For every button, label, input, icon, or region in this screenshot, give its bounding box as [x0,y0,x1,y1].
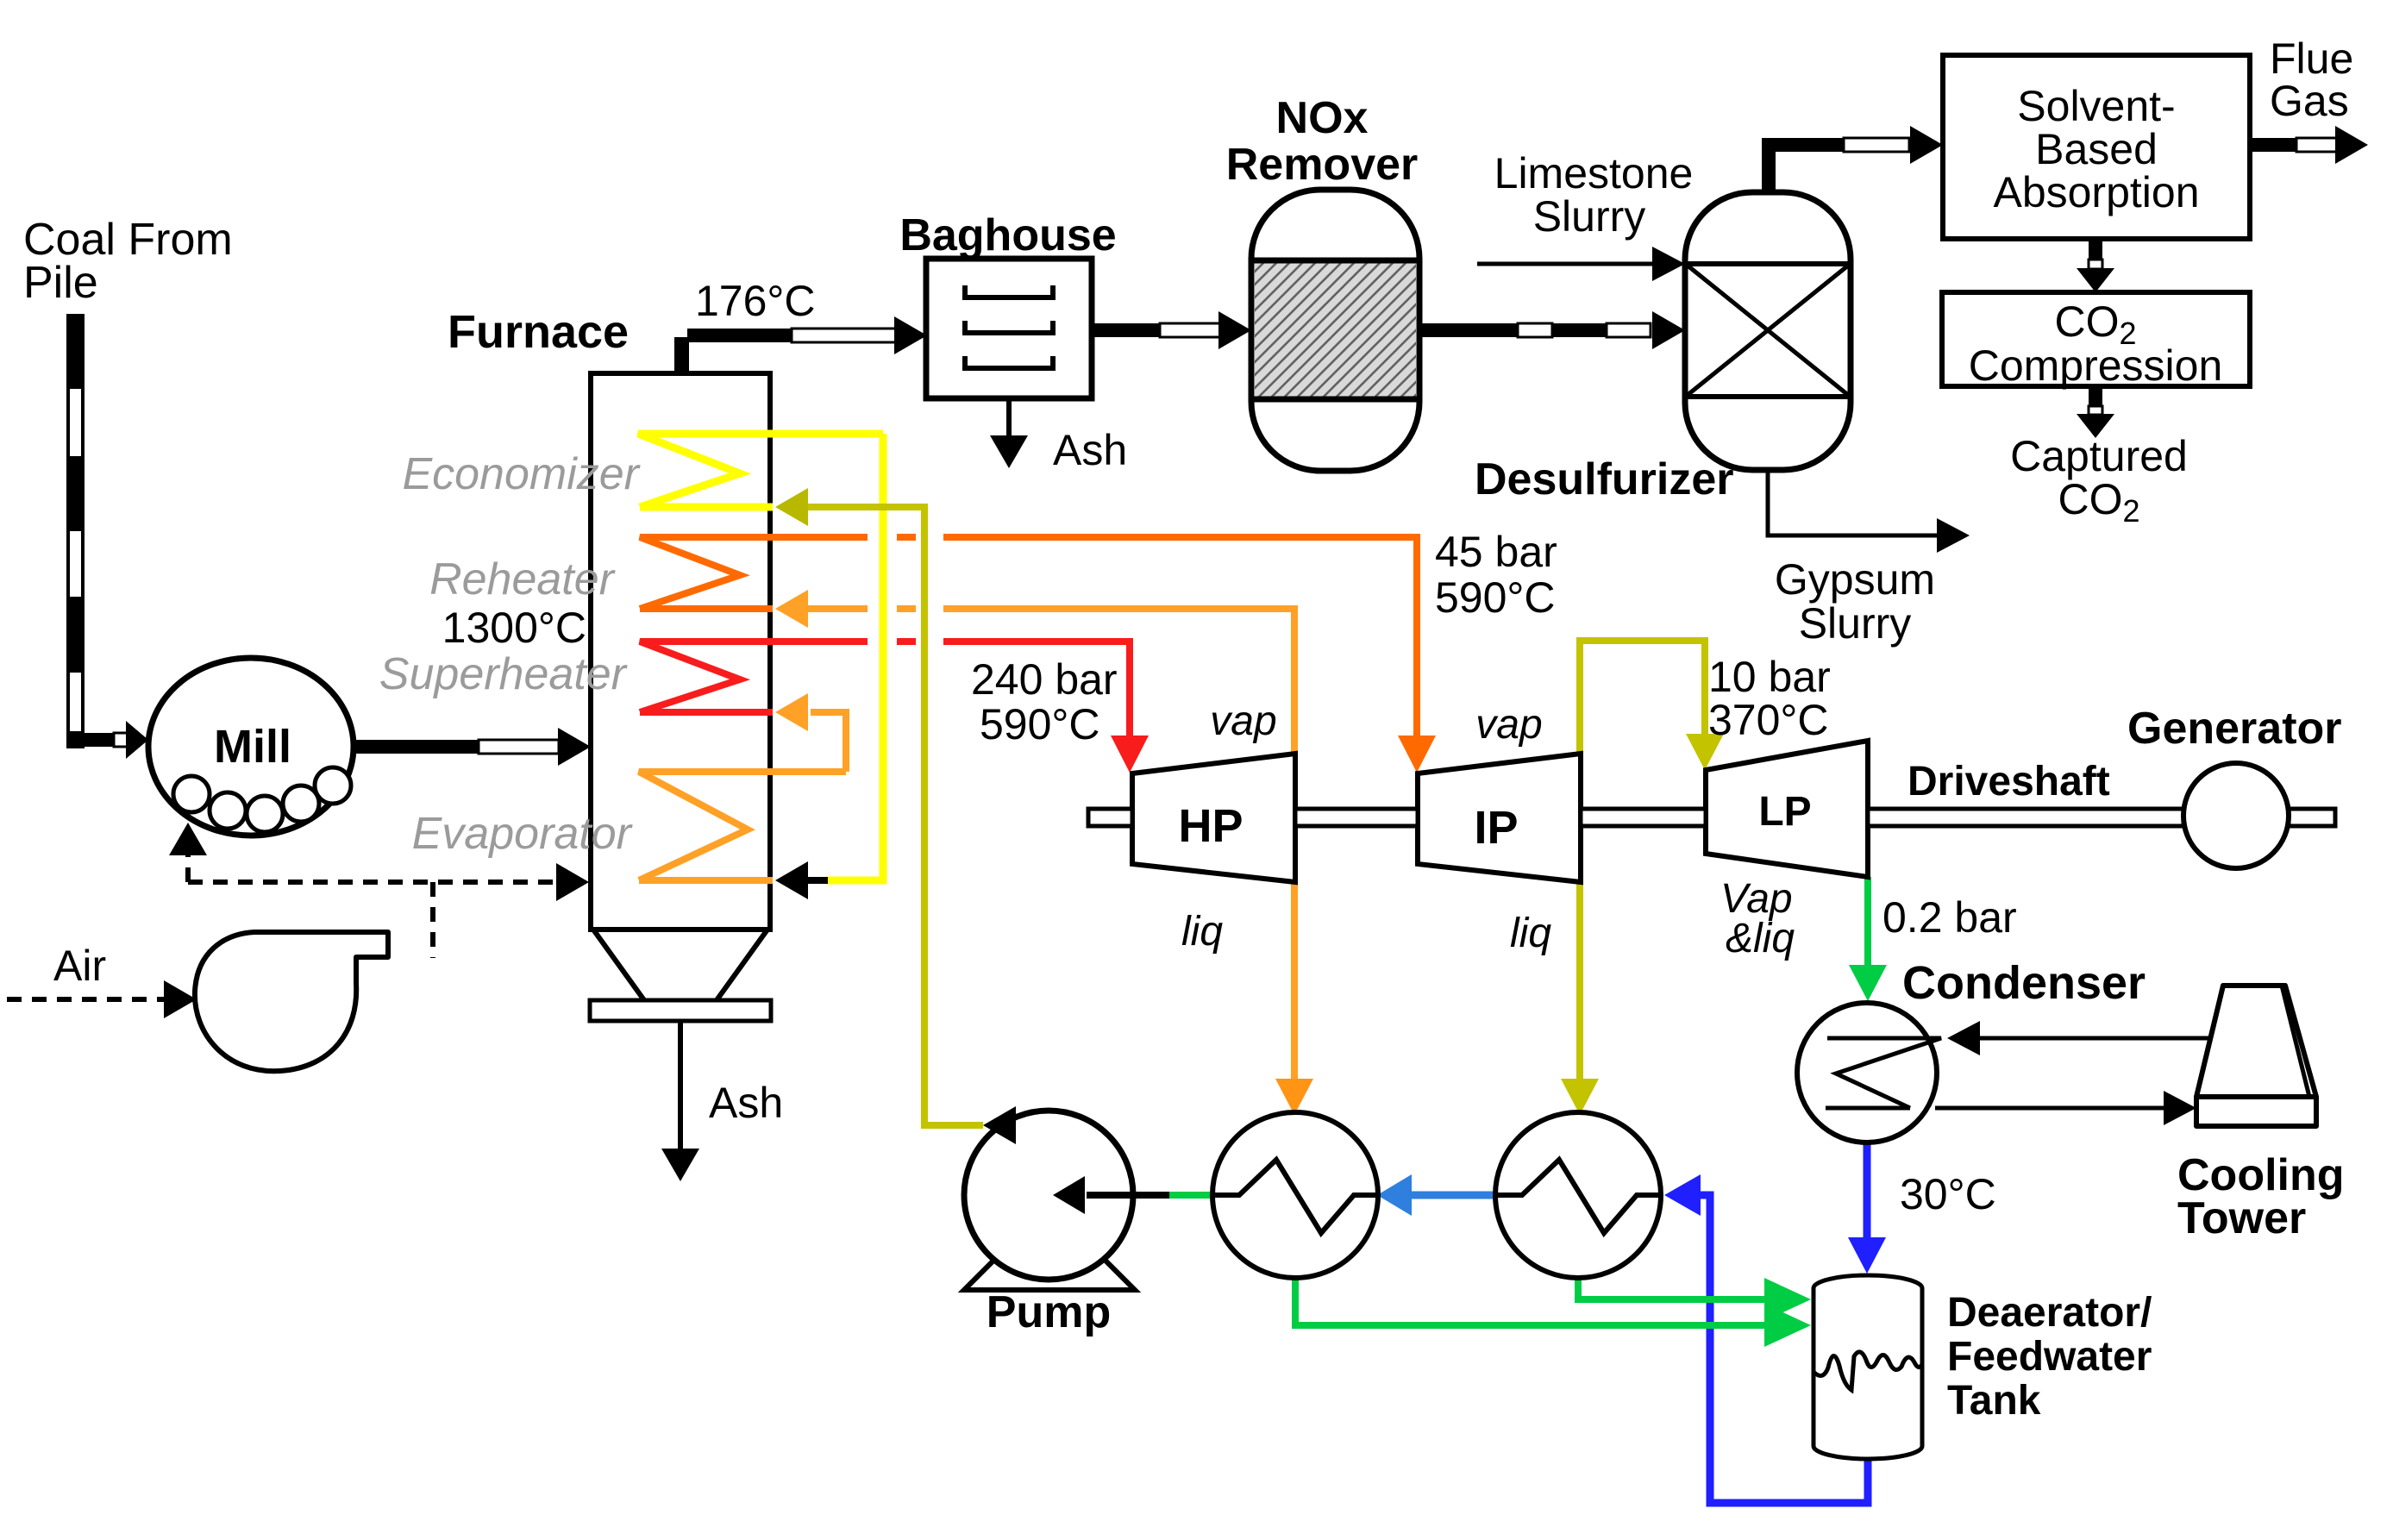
arrow absorber to CO2 compression [2077,239,2114,292]
feedwater green heater2 to deaerator [1578,1277,1764,1299]
feedwater line pump to economizer olive [808,507,983,1125]
IP turbine [1418,754,1581,882]
evaporator feed black arrow [806,877,828,884]
arrow compression to captured CO2 [2077,386,2114,438]
condensate blue deaerator to heater2 [1701,1195,1868,1503]
economizer coil yellow [638,434,883,507]
svg-text:Furnace: Furnace [448,306,629,358]
svg-text:Ash: Ash [1053,426,1127,474]
svg-text:Pile: Pile [23,258,98,308]
LP exhaust to condenser green [1864,877,1871,969]
LP turbine [1706,741,1868,877]
svg-text:Captured: Captured [2010,432,2188,480]
driveshaft [1088,809,2335,826]
svg-text:1300°C: 1300°C [442,604,586,652]
svg-text:Tank: Tank [1947,1378,2041,1424]
svg-text:0.2 bar: 0.2 bar [1882,893,2017,942]
baghouse [926,259,1092,398]
desulfurizer vessel [1685,192,1851,470]
condenser [1797,1003,1937,1142]
CO2 compression box [1942,292,2250,386]
svg-text:370°C: 370°C [1708,696,1829,744]
furnace hopper flange [590,1000,771,1021]
svg-text:Generator: Generator [2127,704,2342,754]
svg-text:Driveshaft: Driveshaft [1908,759,2110,804]
svg-text:Slurry: Slurry [1533,192,1646,241]
svg-text:176°C: 176°C [695,277,816,325]
air fan [195,932,388,1071]
svg-text:liq: liq [1181,909,1223,955]
furnace ash arrow [678,1021,683,1150]
flue gas outlet arrow [2250,126,2368,164]
svg-text:Economizer: Economizer [402,449,641,499]
svg-text:Baghouse: Baghouse [899,210,1116,260]
superheater coil red [640,642,773,712]
cooling tower [2196,986,2316,1126]
dashed air line to furnace [188,880,558,885]
HP turbine [1132,754,1295,882]
svg-text:45 bar: 45 bar [1435,528,1557,576]
NOx remover vessel [1251,190,1419,471]
svg-text:HP: HP [1178,800,1243,852]
svg-text:Tower: Tower [2177,1193,2306,1243]
svg-text:LP: LP [1758,789,1811,835]
svg-text:Superheater: Superheater [379,649,629,699]
svg-text:Gypsum: Gypsum [1775,555,1935,604]
svg-text:590°C: 590°C [980,700,1100,748]
condensate medium blue heater2 to heater1 [1412,1192,1495,1199]
svg-text:Reheater: Reheater [429,554,617,604]
svg-text:Slurry: Slurry [1799,599,1912,648]
svg-text:vap: vap [1475,702,1542,748]
svg-text:Ash: Ash [709,1079,783,1127]
coal conveyor from pile [66,316,85,748]
svg-text:Solvent-: Solvent- [2017,82,2175,130]
pump [964,1111,1133,1280]
svg-text:vap: vap [1210,698,1276,744]
economizer downcomer to evaporator yellow [826,434,883,880]
mill balls [173,767,351,832]
svg-text:NOx: NOx [1276,93,1369,143]
evaporator coil light orange [639,772,846,880]
feedwater heater2 [1495,1112,1661,1278]
svg-text:Deaerator/: Deaerator/ [1947,1290,2152,1336]
flue gas duct 176C furnace to baghouse [674,316,927,375]
duct desulfurizer to absorber [1762,126,1943,194]
furnace vessel [591,373,770,930]
svg-text:Condenser: Condenser [1902,957,2146,1009]
HP extraction to heater1 light orange [1291,882,1298,1083]
svg-text:30°C: 30°C [1900,1170,1996,1218]
evaporator outlet loop to superheater light orange [811,712,846,772]
pulverized coal arrow mill to furnace [354,728,591,766]
svg-text:liq: liq [1510,911,1551,956]
baghouse ash arrow [1006,398,1012,437]
svg-text:&liq: &liq [1726,916,1795,961]
hot reheat line reheater to IP orange [773,537,1417,740]
duct NOx remover to desulfurizer [1419,311,1685,349]
svg-text:Air: Air [53,942,106,990]
limestone slurry arrow [1477,262,1654,266]
svg-text:Mill: Mill [214,721,291,773]
main steam line superheater to HP red [773,642,1130,740]
furnace hopper [593,930,767,1000]
svg-text:Limestone: Limestone [1494,149,1694,197]
cooling water out condenser to tower [1935,1106,2165,1111]
heater1 to pump arrow [1169,1192,1213,1199]
svg-text:10 bar: 10 bar [1708,653,1831,701]
IP steam to LP olive [1580,641,1705,754]
svg-text:Feedwater: Feedwater [1947,1334,2152,1380]
cold reheat line HP to reheater light orange [808,609,1294,754]
NOx remover catalyst bed [1255,262,1416,398]
svg-text:Pump: Pump [987,1287,1111,1337]
deaerator feedwater tank [1814,1275,1922,1459]
svg-text:Flue: Flue [2270,34,2353,83]
svg-text:IP: IP [1474,802,1518,854]
svg-text:590°C: 590°C [1435,573,1556,622]
pump discharge arrowhead black [983,1106,1016,1144]
svg-text:Remover: Remover [1226,140,1419,190]
solvent based absorption box [1943,55,2250,239]
svg-text:Gas: Gas [2270,77,2349,125]
dashed air line fan riser [430,882,435,958]
deaerator water level wave [1814,1352,1922,1390]
dashed air inlet arrow [7,997,166,1002]
svg-text:Evaporator: Evaporator [412,809,634,859]
pump feet [964,1261,1135,1290]
svg-text:Compression: Compression [1969,341,2223,390]
svg-text:Absorption: Absorption [1993,168,2199,216]
baghouse filter elements [965,285,1053,368]
svg-text:Based: Based [2035,125,2158,173]
coal feed arrow into mill [83,721,148,759]
IP extraction to heater2 olive [1576,882,1583,1083]
feedwater heater1 [1212,1112,1378,1278]
dashed air line to mill [185,855,191,882]
generator [2183,763,2289,868]
condensate blue condenser to deaerator [1864,1142,1871,1242]
cooling water return tower to condenser [1980,1036,2225,1041]
feedwater green heater1 to deaerator [1295,1277,1764,1325]
svg-text:Desulfurizer: Desulfurizer [1475,454,1734,504]
gypsum slurry arrow [1768,470,1939,535]
reheater coil orange [640,537,773,609]
mill [148,658,354,836]
duct baghouse to NOx remover [1092,311,1251,349]
svg-text:240 bar: 240 bar [971,655,1118,704]
